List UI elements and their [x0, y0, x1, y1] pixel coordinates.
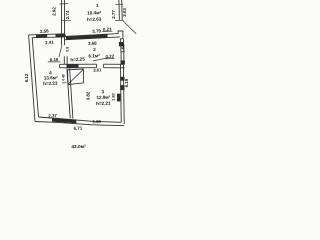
mid wall top line left part [60, 63, 97, 65]
svg-text:0.48: 0.48 [62, 74, 66, 80]
window bar top-left wall A [36, 34, 47, 37]
bottom wall bottom line [35, 122, 124, 126]
svg-text:1.82: 1.82 [112, 93, 116, 100]
room3 right wall line1 [120, 64, 123, 122]
svg-text:h=2.23: h=2.23 [43, 81, 58, 87]
svg-text:1: 1 [96, 3, 99, 8]
svg-text:3.60: 3.60 [92, 119, 101, 124]
svg-text:3.82: 3.82 [85, 91, 90, 100]
svg-text:3.03: 3.03 [122, 8, 127, 17]
svg-text:2: 2 [93, 47, 96, 52]
wall left inner [32, 38, 38, 117]
svg-text:h=2.21: h=2.21 [96, 101, 111, 107]
underline 0.22 [106, 58, 115, 60]
svg-text:12.9м²: 12.9м² [96, 95, 111, 100]
dark bar right wall 2 [120, 85, 124, 90]
svg-text:3.68: 3.68 [88, 41, 97, 46]
tick stove bottom left [62, 82, 66, 84]
diagonal leader [123, 20, 137, 33]
room1 right wall line1 [118, 0, 121, 20]
svg-text:3: 3 [101, 89, 104, 94]
window bar bottom wall [52, 118, 76, 123]
wall C room1 left, line 1 [61, 0, 63, 45]
room1 bottom wall bottom line [64, 37, 120, 40]
room1 bottom wall top line [64, 34, 118, 37]
svg-text:43.0м²: 43.0м² [71, 144, 86, 150]
window sill right wall [117, 94, 120, 102]
divider wall line1 [67, 69, 70, 119]
door leaf room2-room3 [93, 58, 108, 61]
svg-text:1.66: 1.66 [120, 44, 125, 53]
svg-text:0.23: 0.23 [103, 27, 112, 32]
dark bar right wall 1 [120, 77, 124, 81]
mid wall doorway cap left [96, 64, 98, 68]
svg-text:6.71: 6.71 [74, 125, 83, 130]
tick bottom right wall [115, 19, 123, 22]
mid wall doorway cap right [103, 64, 105, 68]
underline 0.16 [48, 61, 61, 63]
door stub line2 [66, 56, 68, 64]
room2 right wall line2 [122, 39, 125, 61]
svg-text:2.37: 2.37 [48, 113, 57, 118]
stove outline [68, 69, 84, 85]
underline 0.23 [102, 30, 112, 32]
svg-text:10.4м²: 10.4м² [87, 10, 102, 15]
svg-text:0.22: 0.22 [105, 54, 114, 59]
svg-text:0.16: 0.16 [50, 57, 59, 62]
wall left outer [29, 35, 35, 122]
room3 right wall line2 [122, 64, 125, 124]
dark corner block room3 top right [121, 60, 125, 64]
window bar room2 right wall [119, 42, 124, 46]
wall top-left bottom line [32, 36, 65, 39]
bottom wall top line [39, 117, 122, 122]
svg-text:2.92: 2.92 [51, 7, 56, 16]
room2 right wall line1 [120, 39, 123, 61]
tick top right wall [115, 3, 123, 6]
svg-text:2.41: 2.41 [45, 40, 54, 46]
svg-text:3.61: 3.61 [93, 67, 102, 72]
svg-text:h=2.25: h=2.25 [70, 57, 85, 63]
wall C room1 left, line 2 [64, 0, 66, 45]
dark bar mid wall [67, 64, 79, 67]
door leaf room4 [59, 45, 62, 57]
dark bar top-left wall B [56, 34, 66, 38]
svg-text:6.1м²: 6.1м² [88, 53, 100, 58]
svg-text:2.56: 2.56 [40, 28, 49, 34]
wall top-left top line [29, 34, 65, 35]
svg-text:6.12: 6.12 [24, 73, 29, 82]
svg-text:6.19: 6.19 [124, 78, 129, 87]
mid wall left cap [59, 64, 61, 68]
svg-text:3.79: 3.79 [92, 28, 101, 33]
mid wall bottom line right part [104, 67, 125, 69]
door stub line1 [63, 56, 65, 64]
room1 bottom wall end cap [118, 31, 123, 39]
room1 right wall line2 [121, 0, 124, 20]
dark bar room1 bottom wall [66, 34, 108, 40]
svg-text:h=2.63: h=2.63 [87, 17, 102, 23]
mid wall top line right part [104, 63, 125, 65]
divider wall line2 [70, 69, 73, 119]
stove diagonal [68, 69, 84, 84]
svg-text:0.8: 0.8 [65, 47, 69, 52]
tick top of wall C [60, 3, 69, 5]
tick lower wall C [61, 19, 71, 22]
mid wall bottom line left part [60, 67, 97, 69]
svg-text:2.74: 2.74 [65, 10, 70, 19]
svg-text:2.77: 2.77 [111, 10, 116, 19]
